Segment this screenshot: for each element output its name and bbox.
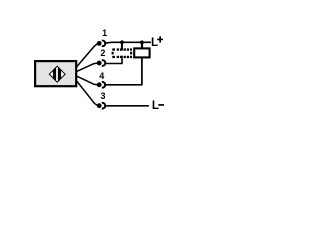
sensor symbol diamond (49, 66, 65, 82)
wire sensor to pin 3 (77, 81, 98, 106)
wire sensor to pin 4 (77, 76, 97, 85)
wire junction A down to dashed load (121, 42, 123, 50)
connector pin 3 (97, 103, 106, 109)
svg-text:1: 1 (102, 28, 107, 38)
connector pin 4 (97, 82, 106, 88)
svg-text:L: L (152, 99, 159, 112)
label L- (152, 99, 164, 112)
wire sensor to pin 1 (77, 44, 98, 67)
wire dashed load to pin 2 (104, 56, 122, 64)
wire sensor to pin 2 (77, 63, 97, 71)
svg-text:3: 3 (100, 91, 105, 101)
svg-text:4: 4 (99, 71, 104, 81)
sensor symbol bars (53, 65, 61, 83)
junction node B (140, 40, 144, 44)
label L+ (151, 36, 163, 49)
connector pin 2 (97, 60, 106, 66)
svg-text:2: 2 (100, 48, 105, 58)
sensor body (35, 61, 76, 86)
connector pin 1 (97, 41, 106, 47)
load RL1 (134, 48, 149, 57)
junction node A (120, 40, 124, 44)
wire junction B down to load (141, 42, 143, 48)
wire pin1 to L+ rail (104, 41, 151, 44)
wire pin 3 to L- (104, 105, 149, 107)
svg-text:L: L (151, 36, 158, 49)
load RL2 optional (dashed outline) (112, 48, 133, 58)
wire load to pin 4 (104, 57, 142, 84)
